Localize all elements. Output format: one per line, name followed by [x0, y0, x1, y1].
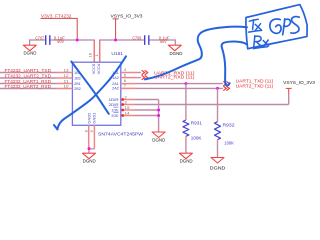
svg-text:VCCB: VCCB: [92, 63, 96, 74]
annotation stroke A (X over IC, top-left to bottom-right): [71, 62, 109, 114]
svg-text:DGND: DGND: [180, 159, 193, 164]
svg-text:V3V3_FT4232: V3V3_FT4232: [41, 14, 72, 19]
capacitor C709: [132, 35, 169, 45]
svg-text:16: 16: [88, 52, 93, 57]
svg-text:2B1: 2B1: [74, 82, 81, 86]
annotation GPS box: [246, 5, 307, 49]
pin stub 1OE pin15: [123, 109, 136, 111]
off-page connector chevron UART1_TXD: [223, 81, 229, 86]
svg-text:FT4232_UART1_TXD: FT4232_UART1_TXD: [5, 68, 52, 73]
junction dot VSYS bus: [114, 39, 117, 42]
annotation stroke B (X over IC, top-right to bottom-left with check tail): [57, 56, 126, 129]
ground DGND under R931: [179, 153, 192, 163]
pin stub 2OE pin14: [123, 115, 136, 117]
svg-text:DGND: DGND: [24, 50, 37, 55]
svg-text:100K: 100K: [224, 141, 234, 146]
svg-text:VSYS_IO_3V3: VSYS_IO_3V3: [111, 14, 143, 19]
svg-text:GND1: GND1: [92, 113, 96, 124]
annotation curve to GPS Tx: [145, 27, 247, 80]
power net V3V3_FT4232: [41, 14, 78, 40]
svg-text:100K: 100K: [191, 136, 202, 141]
svg-text:GND2: GND2: [88, 113, 92, 124]
svg-text:C709: C709: [132, 36, 141, 41]
svg-text:FT4232_UART2_TXD: FT4232_UART2_TXD: [5, 73, 52, 78]
net FT4232_UART1_RXD wire: [0, 83, 57, 85]
svg-text:2A1: 2A1: [112, 82, 119, 86]
svg-text:VSYS_IO_3V3: VSYS_IO_3V3: [283, 80, 315, 85]
svg-text:2B2: 2B2: [74, 87, 81, 91]
svg-text:DGND: DGND: [83, 159, 96, 164]
svg-text:14: 14: [125, 110, 131, 115]
ground DGND under C709: [168, 45, 182, 56]
svg-text:DGND: DGND: [170, 51, 183, 56]
ground DGND under C707: [23, 45, 36, 55]
svg-text:1DIR: 1DIR: [109, 98, 119, 102]
wire top bus left (V3V3 net): [51, 40, 95, 62]
wire GND pins join: [89, 149, 95, 153]
svg-text:R931: R931: [191, 121, 203, 126]
pin stub 2A1 pin6 + wire to label: [121, 83, 137, 85]
svg-text:FT4232_UART2_RXD: FT4232_UART2_RXD: [5, 84, 52, 89]
svg-text:15: 15: [125, 105, 131, 110]
svg-text:SN74AVC4T245PW: SN74AVC4T245PW: [98, 132, 143, 138]
junction dot 2OE: [157, 114, 160, 117]
capacitor C707: [35, 35, 65, 45]
svg-text:C707: C707: [35, 35, 44, 40]
resistor R932: [215, 88, 236, 157]
svg-text:13: 13: [64, 68, 70, 73]
wire C707 to ground: [30, 40, 45, 45]
annotation tail barb: [54, 125, 57, 129]
pin stub VCCA pin1: [99, 41, 101, 63]
svg-text:12: 12: [64, 73, 70, 78]
pin stub 2DIR pin3: [123, 104, 136, 106]
pin stub GND1 pin9: [93, 125, 95, 149]
pin stub 1DIR pin2: [123, 99, 136, 101]
svg-text:R932: R932: [223, 122, 236, 127]
off-page connector chevron UART2_TXD: [223, 86, 229, 91]
svg-text:DGND: DGND: [210, 166, 226, 171]
svg-text:50V: 50V: [160, 39, 167, 44]
junction dot 1OE: [157, 109, 160, 112]
wire 2DIR to VSYS_IO_3V3: [135, 94, 289, 105]
pin stub 1A1 pin4: [121, 72, 138, 74]
net FT4232_UART2_RXD wire: [0, 88, 57, 90]
junction dot GND join: [88, 147, 91, 150]
svg-text:DGND: DGND: [152, 138, 165, 143]
svg-text:10: 10: [64, 84, 70, 89]
svg-text:2DIR: 2DIR: [109, 103, 119, 107]
svg-text:UART2_TXD (11): UART2_TXD (11): [236, 83, 274, 88]
junction dot V3V3 bus: [76, 39, 79, 42]
wire top bus right (VSYS net): [100, 40, 176, 62]
svg-text:9: 9: [90, 130, 94, 132]
annotation text GPS: [270, 17, 299, 35]
pin stub 2A2 pin7 + wire to label: [121, 87, 137, 89]
svg-text:2A2: 2A2: [112, 87, 119, 91]
pin stub 1A2 pin5: [121, 77, 138, 79]
net FT4232_UART2_TXD wire: [0, 77, 57, 79]
power symbol VSYS_IO_3V3 (right): [283, 80, 315, 94]
off-page connector chevron UART2_RXD: [142, 75, 148, 80]
ground DGND under R932: [210, 158, 226, 171]
annotation curve to GPS Rx: [222, 42, 247, 86]
ground DGND for OE pins: [152, 132, 165, 143]
svg-text:VCCA: VCCA: [97, 63, 101, 74]
off-page connector chevron UART1_RXD: [142, 70, 148, 75]
ground DGND under IC: [83, 153, 96, 163]
svg-text:1B2: 1B2: [74, 76, 81, 80]
svg-text:50V: 50V: [57, 39, 64, 44]
annotation text Tx: [249, 19, 262, 32]
IC U161 body SN74AVC4T245PW: [72, 62, 120, 125]
svg-text:U161: U161: [111, 51, 123, 56]
junction dot R931 on 2A1: [184, 82, 187, 85]
annotation text Rx: [254, 36, 269, 49]
pin stub VCCB pin16: [93, 41, 95, 63]
net FT4232_UART1_TXD wire: [0, 72, 57, 74]
svg-text:1OE: 1OE: [111, 108, 119, 112]
svg-text:2OE: 2OE: [111, 114, 119, 118]
wire 1DIR/1OE/2OE to ground: [158, 100, 160, 132]
junction dot R932 on 2A2: [216, 87, 219, 90]
power symbol VSYS_IO_3V3 (top): [111, 14, 143, 40]
pin connection dots DIR/OE: [121, 98, 124, 101]
pin stub GND2 pin8: [88, 125, 90, 148]
wire under V3V3_FT4232 label: [41, 18, 78, 40]
resistor R931: [183, 84, 203, 153]
svg-text:8: 8: [85, 130, 89, 132]
